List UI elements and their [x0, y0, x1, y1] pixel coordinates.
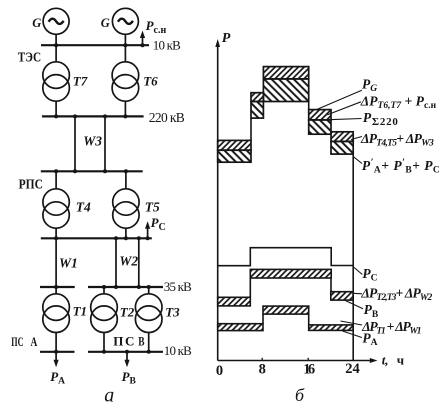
arrowhead PA down [54, 360, 59, 368]
wire T2 to 10kV bus B [103, 333, 105, 352]
vertical 24h down to axis [352, 154, 354, 360]
junction dots 10kV buses [54, 350, 58, 354]
generator G1 circle [43, 8, 69, 34]
leader dPT1 [341, 321, 363, 325]
leader Psum220 [329, 119, 362, 120]
leader dPT67 [327, 102, 361, 115]
leader dPT23 [354, 292, 363, 295]
CHART [218, 42, 374, 361]
wire T7 to 220kV bus [55, 101, 57, 116]
svg-text:35 кВ: 35 кВ [164, 279, 192, 294]
arrow Psn [142, 37, 144, 46]
bus 10kV PS B [88, 351, 163, 353]
svg-text:б: б [295, 385, 305, 405]
bus 220kV [42, 115, 144, 117]
transformer T2 [91, 294, 118, 321]
svg-text:В: В [138, 333, 145, 348]
transformer T7 [43, 62, 70, 89]
x axis t [218, 360, 374, 362]
leader dPT45 [351, 137, 362, 140]
svg-text:А: А [31, 334, 38, 349]
transformer T3 [135, 294, 162, 321]
arrow PC schematic [147, 227, 149, 239]
block4 upper band [309, 110, 331, 120]
leader PC lower [354, 267, 363, 275]
wire T5 to RPS lower bus [125, 228, 127, 238]
svg-text:ПС: ПС [11, 334, 23, 349]
arrowhead Psn up [140, 31, 145, 39]
svg-text:W2: W2 [119, 253, 138, 268]
svg-text:ТЭС: ТЭС [18, 50, 41, 65]
svg-text:Т4: Т4 [76, 200, 91, 215]
y axis P [217, 42, 219, 361]
band T2T3 right [331, 292, 353, 300]
wire bus to T6 [124, 45, 126, 62]
svg-text:8: 8 [259, 362, 266, 378]
block3 upper band [263, 67, 308, 79]
bus 35kV left [40, 286, 75, 288]
svg-text:Т7: Т7 [73, 74, 88, 89]
arrow PA load [55, 352, 57, 363]
leader PB [346, 301, 364, 309]
block5 upper band [331, 132, 353, 142]
svg-text:P: P [222, 31, 231, 46]
band T1 left [218, 324, 263, 331]
block2 upper band [251, 93, 263, 102]
wire 35kV bus to T3 [148, 287, 150, 294]
svg-text:10 кВ: 10 кВ [164, 343, 192, 358]
transformer T6 [112, 62, 139, 89]
svg-text:6: 6 [308, 362, 315, 378]
PC load curve [218, 248, 353, 266]
junction dots RPS upper bus [54, 169, 58, 173]
tick 16 [307, 358, 309, 361]
junction dots 220 bus [54, 114, 58, 118]
junction dots 35kV buses [54, 285, 58, 289]
step vertical x=308.7 gap [308, 102, 310, 110]
bus 10kV PS A [40, 351, 75, 353]
junction dots TES bus [54, 43, 58, 47]
band T2T3 left [218, 297, 251, 306]
block1 lower band [218, 150, 251, 162]
block1 upper band [218, 140, 251, 150]
arrowhead y axis [215, 39, 220, 47]
band T1 right [309, 325, 353, 331]
wire bus to T7 [55, 45, 57, 62]
svg-text:24: 24 [345, 361, 360, 377]
wire 35kV bus to T2 [103, 287, 105, 294]
bus 35kV right [88, 286, 163, 288]
svg-text:0: 0 [216, 363, 223, 379]
arrow PB load [126, 352, 128, 363]
bus RPS lower [41, 237, 152, 239]
step vertical x=251 gap [250, 118, 252, 140]
band T1 mid [263, 306, 309, 314]
svg-text:W3: W3 [83, 134, 102, 149]
tick 8 [261, 358, 263, 361]
generator G2 circle [112, 8, 138, 34]
junction dots RPS lower bus [54, 236, 58, 240]
line W3 left [74, 116, 76, 171]
svg-text:Т1: Т1 [73, 303, 87, 318]
block4 lower band [309, 120, 331, 134]
transformer T5 [113, 189, 139, 215]
svg-text:10 кВ: 10 кВ [153, 37, 181, 52]
wire T1 to 10kV bus A [55, 333, 57, 352]
line W2 left [115, 238, 117, 287]
svg-text:РПС: РПС [19, 178, 43, 193]
leader PG [317, 90, 362, 109]
step verticals lower chart [249, 278, 251, 297]
leader PABC [353, 156, 362, 163]
arrowhead PB down [124, 360, 129, 368]
leader PA lower [342, 331, 362, 338]
wire G1 to 10kV bus [55, 34, 57, 45]
arrowhead x axis [370, 358, 378, 363]
generator G2 tilde [118, 19, 133, 24]
wire RPS bus to T4 [55, 171, 57, 189]
wire T4 to RPS lower bus [55, 228, 57, 238]
block5 lower band [331, 141, 353, 154]
wire G2 to 10kV bus [124, 34, 126, 45]
transformer T4 [43, 189, 69, 215]
band T2T3 mid [250, 269, 331, 278]
svg-text:W1: W1 [59, 255, 78, 270]
svg-text:Т6: Т6 [143, 74, 158, 89]
svg-text:G: G [32, 16, 41, 30]
line W2 right [138, 238, 140, 287]
wire 35kV bus to T1 [55, 287, 57, 294]
block3 lower band [263, 79, 308, 102]
block2 lower band [251, 102, 263, 119]
svg-text:G: G [101, 16, 110, 30]
bus TES 10kV [41, 44, 149, 46]
svg-text:Т5: Т5 [145, 200, 160, 215]
wire T6 to 220kV bus [124, 101, 126, 116]
svg-text:а: а [104, 385, 114, 407]
generator G1 tilde [49, 19, 64, 24]
wire RPS bus to T5 [125, 171, 127, 189]
svg-text:220 кВ: 220 кВ [149, 110, 185, 125]
line W1 [55, 238, 57, 287]
arrowhead PC up [145, 221, 150, 229]
svg-text:Т3: Т3 [165, 304, 180, 319]
svg-text:Т2: Т2 [120, 304, 135, 319]
bus RPS upper [41, 170, 143, 172]
line W3 right [104, 116, 106, 171]
wire T3 to 10kV bus B [148, 333, 150, 352]
transformer T1 [43, 294, 70, 321]
